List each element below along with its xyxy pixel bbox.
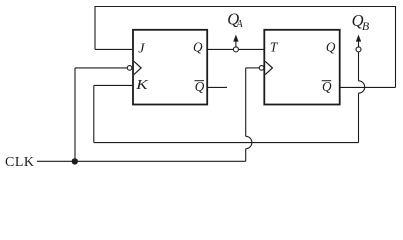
svg-text:J: J bbox=[138, 42, 145, 57]
svg-text:A: A bbox=[236, 19, 244, 30]
svg-text:Q: Q bbox=[193, 39, 203, 54]
svg-text:CLK: CLK bbox=[5, 155, 35, 170]
svg-text:B: B bbox=[362, 19, 370, 33]
svg-text:Q: Q bbox=[326, 39, 336, 54]
svg-text:K: K bbox=[135, 77, 149, 92]
svg-text:Q: Q bbox=[195, 79, 205, 94]
svg-text:Q: Q bbox=[322, 79, 332, 94]
